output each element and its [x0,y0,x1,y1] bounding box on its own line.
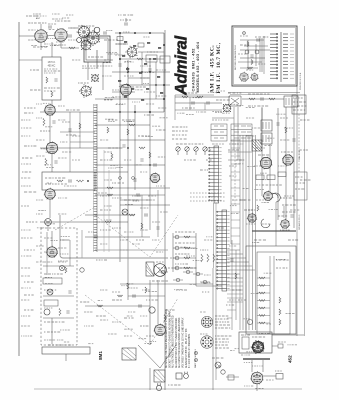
label sprinkle 90 [148,290,157,292]
wire diag V bottom [138,345,176,368]
label mesh extra 8 [144,91,155,93]
wire right bus R2 [304,26,306,336]
label leftcol 9 [21,237,32,239]
capacitor C51 [257,38,259,41]
label lad2 [206,159,212,161]
wire ant in [19,35,35,37]
wire T1 out [51,100,53,108]
label sprinkle 22 [47,223,55,225]
wire phono h3 [43,317,74,319]
label speck 27 [200,169,208,171]
tube V11 phono b [250,73,259,82]
junction grommet1 cross [60,266,64,270]
resistor RB3 [147,42,150,44]
tube V12 FM IF [260,157,273,170]
label V6 l [24,145,36,147]
transistor Q6 [44,309,50,315]
label table left1 [172,126,187,128]
label speck 28 [232,289,241,291]
label phono extra 4 [60,253,68,255]
resistor RB12 [131,88,134,90]
label mid low 8 [124,231,133,233]
label speck 16 [136,239,144,241]
transformer T7 [122,348,136,360]
wire dial v104 [103,150,105,252]
label sprinkle 39 [145,135,153,137]
wire phono v3 [46,232,48,275]
assembly phono box inner [234,28,296,85]
assembly phono box outer [232,26,297,86]
wire lad2 feed [196,285,222,287]
capacitor C3 [54,79,57,81]
wire phono v [51,318,53,344]
coil L1 antenna [79,84,92,97]
transformer T4 winding [286,98,295,105]
label rows extra 6 [204,239,212,241]
label sprinkle 85 [126,283,133,285]
wire bus v6 [255,135,257,330]
label box t2 [240,44,249,46]
wire rn7 [257,322,270,324]
label sprinkle 75 [206,236,212,238]
svg-text:SPEAKER PLUG: SPEAKER PLUG [298,214,301,230]
label speck 22 [300,149,308,151]
label sprinkle 65 [262,202,270,204]
wire bus v1 [239,135,241,330]
resistor R48 [145,287,147,293]
connector interlock3 [228,375,234,380]
capacitor C17 [118,64,121,66]
label mesh low 2 [112,197,122,199]
label sprinkle 2 [49,28,55,30]
capacitor C50 [250,55,253,57]
junction J1 [119,111,120,112]
label sprinkle 11 [119,86,125,88]
label speck 24 [288,239,298,241]
transformer T1 IF can [42,57,61,100]
wire rail x173 [172,233,174,272]
label sprinkle 9 [104,98,113,100]
resistor R60 [108,194,113,196]
junction j5 [149,58,150,59]
label V5 l [24,107,36,109]
label sprinkle 21 [41,148,48,150]
label socket1 r3 [215,321,229,323]
label sprinkle 73 [201,282,210,284]
resistor RB5 [122,55,125,57]
label mesh extra 7 [112,89,121,91]
label sprinkle 27 [46,166,54,168]
wire rn2 [257,285,270,287]
transistor Q2 [245,50,249,54]
label left phono3 [24,309,34,311]
pin indicator [243,32,246,35]
label bc 3 [128,287,138,289]
label sprinkle 88 [124,328,133,330]
wire y85 [120,84,170,86]
resistor RV3 [213,254,215,262]
label mid low 6 [104,219,112,221]
label sprinkle 30 [38,209,46,211]
wire det v175 [174,95,176,120]
wire if v262 [261,108,263,196]
label V12 [258,154,269,156]
label sprinkle 96 [251,293,259,295]
switch S2 table [231,124,252,141]
label tube ring 8 [33,13,41,15]
assembly FM tuner inner box [86,38,108,60]
wire y95 det [175,94,214,96]
wire y172b [95,171,128,173]
resistor R14 [79,123,81,129]
pin V19 dot 3 [253,379,254,380]
wire ps right [272,334,304,336]
switch S3 wafer 1 [176,147,180,151]
svg-text:K = 1000 OHMS. M = MEGOHMS.: K = 1000 OHMS. M = MEGOHMS. [189,333,191,368]
resistor R15 [129,124,135,126]
resistor RB7 [153,58,156,60]
label if extra 1 [246,117,254,119]
label bc 10 [124,335,132,337]
wire drop x164 [163,33,165,112]
resistor R47 [127,283,129,289]
wire interlock [226,376,239,378]
label T1 inner1 [44,70,60,72]
capacitor C45 [133,294,135,297]
switch S1 table [211,124,227,141]
label crow2 [180,267,197,269]
transformer T6 output [146,262,154,276]
wire tuner drop1 [87,62,89,80]
label speck 29 [238,299,246,301]
resistor R41 box [44,300,58,306]
wire box h4 [244,45,268,47]
transformer T2 can [42,172,95,190]
wire y97 det [175,96,230,98]
wire bus link low 1 [227,281,243,283]
label tuner a [78,25,94,27]
wire x232 low [231,240,233,330]
resistor RB9 [139,72,142,74]
svg-text:ALL CAPACITOR VALUES IN MFD UN: ALL CAPACITOR VALUES IN MFD UNLESS MMF. [178,317,181,368]
label leftcol 11 [21,267,30,269]
wire v213 upper [213,203,215,268]
label tuner b [88,56,103,58]
wire bus link low 4 [227,293,243,295]
label speck 8 [108,119,117,121]
label nested1 [276,259,289,261]
label speck 10 [144,114,154,116]
label mid low 9 [140,229,148,231]
label leftcol 14 [21,299,29,301]
label ps5 [266,379,274,381]
connector J2 strip [209,146,222,203]
resistor R8 [138,43,144,47]
label sprinkle 6 [39,36,48,38]
wire x165 long [164,30,166,390]
wire bus link8 [227,277,243,279]
wire box v1 [247,40,249,70]
wire x80 chain [79,112,81,148]
label speck 38 [248,209,255,211]
label sprinkle 63 [269,209,278,211]
wire row4 [173,267,196,269]
capacitor C46 [139,304,141,307]
wire if x238 [237,107,239,160]
wire bus link low 6 [227,301,243,303]
label if1 [248,93,269,95]
label sprinkle 84 [49,252,56,254]
label if extra 11 [246,223,255,225]
wire if v278 [277,108,279,220]
label rows extra 4 [200,249,208,251]
label left col2 [22,171,31,173]
label leftcol 7 [21,205,29,207]
switch S2 rows [231,126,252,138]
label sprinkle 54 [237,105,244,107]
wire y230 heavy [252,230,296,232]
socket XV2 base diagram [201,336,213,348]
svg-text:PRINTED IN U.S.A.: PRINTED IN U.S.A. [299,72,302,90]
pin p1 [119,177,122,180]
label left phono [24,281,34,283]
label nested2 [276,267,287,269]
label interlock [212,357,223,359]
wire y306 [85,305,150,307]
capacitor C13 [68,129,71,131]
label sprinkle 91 [127,315,133,317]
label leftcol 16 [21,325,30,327]
label R7 [116,43,126,45]
resistor R16 [139,147,145,149]
svg-text:ALL RESISTORS 1/2 WATT UNLESS: ALL RESISTORS 1/2 WATT UNLESS SPECIFIED. [175,317,178,368]
label mesh2 [138,135,150,137]
resistor R32 [257,205,259,211]
wire box h5 [238,61,262,63]
label ps1 [241,334,250,336]
label socket cap1 [200,311,206,313]
wire phono h1 [43,265,74,267]
pin V19 dot 1 [259,379,260,380]
wire y200 [120,199,150,201]
label sprinkle 53 [243,188,249,190]
label lowmid b [229,299,236,301]
transformer T4 can [284,96,298,107]
label sprinkle 67 [260,172,267,174]
capacitor C1 [49,25,51,28]
label speaker [152,280,168,282]
tube V6 2nd IF [45,141,58,154]
label if extra 2 [252,127,260,129]
label tube ring 10 [62,17,69,19]
assembly phono preamp box [41,228,77,345]
label phono extra 8 [44,339,55,341]
label det5 [176,87,184,89]
label leftcol 13 [21,287,31,289]
switch S3 wafer 3 [194,147,198,151]
resistor R7 [117,37,123,41]
label socket cap2 [200,333,208,335]
label mesh4 [112,182,124,184]
wire if top bus a [228,92,300,94]
wire dial cord 2 [55,207,95,230]
label mid low 13 [124,159,131,161]
resistor RB11 [118,80,121,82]
label ps4 [252,365,263,367]
wire y103 det [175,102,222,104]
component CR2 a [176,278,180,282]
label table left2 [172,130,188,132]
label if mid [256,147,265,149]
label sprinkle 64 [267,137,274,139]
wire x142 [141,52,143,85]
capacitor C24 [95,235,97,238]
resistor R61 [141,223,143,229]
wire y188 [95,187,170,189]
svg-text:MODELS 402 - 403 - 404: MODELS 402 - 403 - 404 [195,41,200,92]
svg-text:AM I.F. 455 KC,: AM I.F. 455 KC, [209,45,215,93]
label cart [48,344,71,346]
label q9 [282,211,296,213]
resistor R30 box [278,172,286,177]
label sprinkle 68 [231,212,239,214]
junction jn1 [247,319,252,324]
label left col1 [22,157,32,159]
label rlb 3 [295,188,304,190]
label speck 33 [124,317,134,319]
label V2 below [54,44,66,46]
wire comb rail [93,104,95,252]
wire if v1 [261,107,263,120]
label mid low 4 [104,179,112,181]
label speck 2 [104,59,113,61]
label det2 [182,92,197,94]
component CR4 a [203,280,207,284]
connector P1 terminal rows [270,32,294,82]
label speck 31 [112,299,122,301]
label chain 8 [58,157,67,159]
component CR5 a [186,270,190,274]
resistor RB16 [141,99,144,101]
tuning capacitor VC1 [252,140,262,151]
junction j6 [141,71,142,72]
label leftcol 15 [21,315,30,317]
label R11 [40,130,50,132]
label sprinkle 29 [45,126,52,128]
label if extra 9 [256,199,264,201]
label leftcol 6 [21,185,31,187]
wire v213 [212,268,214,390]
label out2 [166,309,175,311]
label sprinkle 38 [158,156,166,158]
wire bus v5 [252,135,254,330]
label table left3 [172,134,187,136]
capacitor C2 [69,34,71,37]
label speck 4 [30,69,39,71]
label sprinkle 32 [110,164,118,166]
wire x135 [134,105,136,190]
label sprinkle 46 [215,111,222,113]
label sprinkle 37 [128,121,134,123]
label chain 12 [58,213,66,215]
wire v2 drop [60,42,62,49]
label sprinkle 69 [204,274,211,276]
wire bus stub 12 [231,227,240,229]
label sprinkle 16 [123,31,129,33]
label socket2 r5 [215,347,229,349]
wire bus stub 13 [231,235,240,237]
resistor RL4 [184,267,190,269]
label speck 3 [70,27,82,29]
label sprinkle 108 [255,387,263,389]
label mesh low 4 [146,199,155,201]
junction j7 [155,84,156,85]
wire x236 low [235,250,237,320]
label mesh1 [122,119,135,121]
label sprinkle 1 [31,45,37,47]
label chain 14 [58,247,66,249]
tube V19 socket [250,371,263,384]
label mesh low 5 [104,205,112,207]
label bc 12 [84,311,93,313]
label mid low 5 [100,195,110,197]
label near R9 [147,51,158,53]
resistor R11 [43,119,45,126]
wire x156 [155,62,157,99]
label sprinkle 44 [142,135,148,137]
transformer T5b [261,133,272,144]
svg-text:VOLTAGES TAKEN WITH 117V AC LI: VOLTAGES TAKEN WITH 117V AC LINE SUPPLY. [182,317,185,368]
wire bus stub 14 [231,243,240,245]
label V5 l2 [24,112,33,114]
label switch row [176,143,203,145]
label bc 5 [100,319,108,321]
junction JD1 [119,32,121,34]
capacitor C26 [261,97,263,100]
tube V17 output [154,324,167,337]
label sprinkle 17 [105,97,115,99]
transistor Q4 arc [272,193,278,198]
transistor Q5 leads [47,290,53,294]
label sprinkle 60 [264,145,272,147]
label mesh low 6 [140,207,148,209]
capacitor C23 [145,213,147,216]
junction grommet2 [80,268,84,272]
assembly power box [239,332,272,353]
capacitor C16 [133,179,136,181]
label phono4 [44,331,60,333]
wire tuner center drop [96,50,98,68]
label bc 1 [100,289,107,291]
connector interlock2 [221,370,225,374]
wire gray v82 [81,230,83,258]
label sprinkle 18 [125,61,131,63]
label speck 13 [60,239,68,241]
transistor Q8 [272,193,280,202]
resistor RL2 [184,247,190,249]
label sprinkle 12 [103,62,111,64]
label rows3 [175,253,189,255]
label chain fill2 [72,135,80,137]
label sprinkle 78 [57,339,63,341]
label top mid1 [118,14,133,16]
capacitor C5 [104,31,106,34]
wire rn1 [257,277,270,279]
wire v1 drop [40,43,42,51]
capacitor C19 [122,145,125,147]
label tube ring 4 [44,43,53,45]
label motor [168,384,181,386]
